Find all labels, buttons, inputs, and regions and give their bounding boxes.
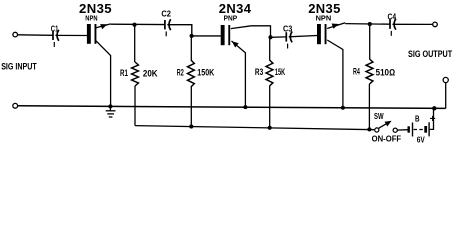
svg-text:NPN: NPN [85, 14, 97, 23]
resistor R2 150K [190, 36, 192, 60]
wire: input to C1 [18, 34, 53, 37]
terminal: SIG INPUT hot [13, 32, 18, 37]
svg-text:NPN: NPN [316, 14, 332, 23]
wire: Q2 emitter line [232, 41, 246, 107]
battery rail (bottom rail 2) [135, 126, 374, 130]
wire: Q2 collector diagonal to stage-2 rail [231, 26, 271, 38]
wire: C1 to Q1 base [55, 34, 87, 36]
svg-text:ON-OFF: ON-OFF [372, 134, 402, 144]
capacitor C3 [285, 32, 287, 41]
svg-text:R3: R3 [255, 67, 263, 77]
node: Q2 emitter on ground rail [243, 105, 247, 109]
svg-text:C1: C1 [51, 25, 59, 34]
wire: Q1 collector diagonal [96, 41, 111, 106]
capacitor C1 [52, 31, 54, 40]
resistor R3 15K [269, 38, 271, 60]
ground symbol [106, 106, 116, 117]
terminal: SIG OUTPUT ground [443, 77, 448, 82]
wire: battery to ground-rail junction [430, 108, 434, 129]
svg-text:SIG OUTPUT: SIG OUTPUT [408, 49, 453, 59]
arrowhead Q3 emitter [332, 24, 339, 29]
wire: switch to battery [397, 129, 408, 131]
wire: Q3 emitter diagonal to output rail [327, 23, 345, 29]
ground rail (bottom rail 1) [18, 106, 446, 109]
transistor Q2 2N34 [221, 25, 225, 45]
node: C2/R2/Q2-base junction [190, 34, 194, 38]
wire: node to C3 [271, 36, 287, 38]
transistor Q1 2N35 [87, 24, 91, 44]
svg-text:15K: 15K [275, 67, 286, 77]
terminal: SIG OUTPUT hot [433, 22, 438, 27]
wire: C3 to Q3 base [289, 36, 318, 37]
switch throw contact [393, 128, 397, 132]
node: Q1 collector / ground junction [108, 104, 112, 108]
svg-text:PNP: PNP [224, 14, 238, 23]
svg-text:C4: C4 [388, 13, 397, 22]
switch arm with arrow [379, 122, 389, 128]
svg-text:+: + [430, 114, 436, 125]
arrowhead Q2 emitter (PNP, into bar) [232, 41, 239, 47]
wire: output ground terminal drop [445, 83, 447, 109]
battery B 6V [409, 122, 429, 136]
node: R1 top junction [132, 23, 136, 27]
svg-text:R2: R2 [177, 67, 184, 77]
node: R3 bottom [268, 126, 272, 130]
svg-text:20K: 20K [143, 69, 158, 79]
wire: node to Q2 base [192, 35, 221, 37]
svg-text:R4: R4 [353, 67, 360, 77]
switch SW pole [375, 128, 379, 132]
svg-text:SIG INPUT: SIG INPUT [1, 61, 37, 71]
svg-text:C2: C2 [161, 10, 171, 19]
wire: output rail [345, 23, 390, 26]
node: R4 bottom [367, 127, 371, 131]
svg-text:6V: 6V [417, 135, 425, 145]
transistor Q3 2N35 [317, 24, 321, 44]
node: R3/C3 junction [268, 35, 272, 39]
svg-text:B: B [415, 113, 420, 123]
node: Q3 collector on ground rail [341, 106, 345, 110]
svg-text:510Ω: 510Ω [376, 67, 396, 77]
terminal: SIG INPUT ground [13, 103, 18, 108]
svg-text:C3: C3 [283, 25, 293, 34]
resistor R1 20K [134, 26, 136, 62]
node: battery positive on ground rail [432, 106, 436, 110]
capacitor C4 [389, 20, 391, 29]
arrowhead Q1 emitter [100, 24, 107, 29]
capacitor C2 [164, 20, 166, 29]
svg-text:R1: R1 [120, 68, 128, 78]
resistor R4 510ohm [369, 24, 371, 59]
wire: Q1 emitter diagonal to top rail [96, 24, 111, 28]
wire: Q3 collector line [327, 40, 343, 108]
wire: stage-1 top rail [111, 23, 165, 25]
svg-text:SW: SW [374, 111, 384, 121]
node: R2 bottom [189, 124, 193, 128]
svg-text:150K: 150K [197, 67, 214, 77]
node: R4 top junction [368, 22, 372, 26]
